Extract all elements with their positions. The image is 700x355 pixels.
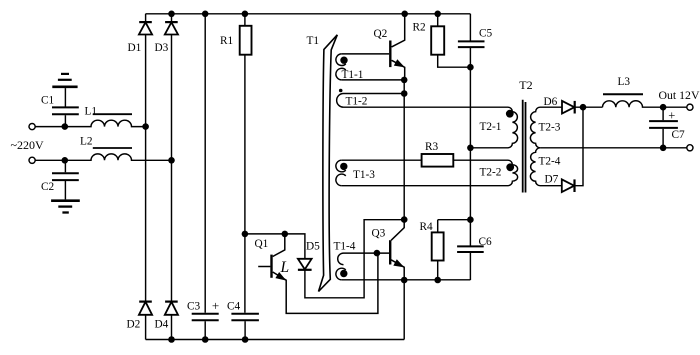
svg-text:Q1: Q1 bbox=[255, 238, 269, 250]
terminal output top bbox=[687, 104, 693, 110]
wire Q3 emitter node to bottom rail bbox=[403, 280, 405, 340]
terminal input top bbox=[29, 124, 35, 130]
junction Q3 base T1-4 bbox=[374, 250, 381, 257]
transistor Q3 bbox=[390, 220, 404, 280]
resistor R2 bbox=[431, 14, 470, 67]
capacitor C6 bbox=[457, 246, 484, 280]
junction L3 out C7 top bbox=[660, 104, 667, 111]
capacitor C2 bbox=[52, 160, 79, 199]
diode D5 bbox=[298, 220, 404, 298]
diode D1 bbox=[139, 14, 152, 302]
svg-text:L2: L2 bbox=[80, 136, 93, 148]
junction top rail R1 bbox=[242, 11, 249, 18]
svg-text:D5: D5 bbox=[306, 240, 320, 252]
wire C3 column bbox=[204, 14, 206, 340]
diode D2 bbox=[139, 302, 152, 340]
polarity dot T2-2 bbox=[506, 163, 514, 171]
junction bottom rail C4 bbox=[242, 336, 249, 343]
winding T2-1 with feed from T1-2 bbox=[344, 107, 518, 148]
svg-text:T2-1: T2-1 bbox=[480, 121, 502, 133]
junction Q3 emitter T1-4 bottom bbox=[401, 277, 408, 284]
polarity dot T1-4 bbox=[340, 270, 347, 277]
capacitor C5 bbox=[458, 14, 485, 246]
polarity dot T2-1 bbox=[506, 110, 514, 118]
svg-text:T1: T1 bbox=[307, 35, 320, 47]
junction L1 C1 bbox=[62, 123, 69, 130]
svg-text:+: + bbox=[212, 298, 219, 313]
transformer T2 core bbox=[523, 100, 526, 193]
diode D7 bbox=[562, 107, 583, 192]
svg-text:R3: R3 bbox=[425, 141, 439, 153]
wire Q2 emitter to Q3 column bbox=[403, 80, 405, 220]
junction Q2 emitter T1-1 bbox=[401, 77, 408, 84]
svg-text:C2: C2 bbox=[41, 181, 55, 193]
junction D6 cathode node bbox=[580, 104, 587, 111]
inductor L3 bbox=[603, 94, 687, 107]
polarity dot T1-1 bbox=[340, 57, 347, 64]
svg-text:C6: C6 bbox=[479, 236, 493, 248]
junction Q3 collector node bbox=[401, 216, 408, 223]
svg-text:Q2: Q2 bbox=[374, 28, 388, 40]
junction top rail R2 bbox=[434, 11, 441, 18]
junction R2 C5 bottom bbox=[467, 64, 474, 71]
svg-text:D3: D3 bbox=[155, 42, 169, 54]
capacitor C7 bbox=[649, 107, 678, 148]
svg-text:~220V: ~220V bbox=[11, 138, 44, 152]
junction top rail C3 bbox=[202, 11, 209, 18]
diode D6 bbox=[562, 101, 603, 114]
terminal input bottom bbox=[29, 157, 35, 163]
diode D3 bbox=[165, 14, 178, 302]
junction C7 bottom bbox=[660, 145, 667, 152]
junction bottom rail D4 bbox=[168, 336, 175, 343]
wire top rail bbox=[146, 13, 471, 15]
svg-text:T2: T2 bbox=[519, 78, 532, 92]
svg-text:L3: L3 bbox=[618, 76, 631, 88]
svg-text:T1-4: T1-4 bbox=[334, 240, 356, 252]
winding T1-3 bbox=[336, 160, 422, 186]
winding T1-1 bbox=[336, 54, 404, 80]
junction top rail D3 bbox=[168, 11, 175, 18]
junction T1-2 top bbox=[401, 90, 408, 97]
wire center tap to output bbox=[540, 147, 687, 149]
winding T1-2 bbox=[337, 94, 405, 108]
ground above C1 bbox=[52, 74, 77, 107]
junction T2-1 bottom C5 column bbox=[467, 145, 474, 152]
svg-text:T2-4: T2-4 bbox=[539, 156, 561, 168]
ground below C2 bbox=[51, 201, 80, 213]
svg-text:C1: C1 bbox=[41, 94, 54, 106]
junction L1 D1 column bbox=[142, 123, 149, 130]
svg-text:T1-2: T1-2 bbox=[346, 95, 368, 107]
junction L2 D3 column bbox=[168, 157, 175, 164]
winding T2-4 with wire to D7 bbox=[530, 148, 561, 186]
svg-text:T2-3: T2-3 bbox=[539, 121, 561, 133]
svg-text:D7: D7 bbox=[545, 174, 559, 186]
svg-text:L: L bbox=[280, 259, 290, 276]
junction R1 Q1 collector line bbox=[242, 231, 249, 238]
winding T2-3 with wire to D6 bbox=[530, 107, 562, 148]
capacitor C1 bbox=[52, 107, 79, 126]
transistor Q1 bbox=[258, 234, 378, 314]
junction L2 C2 bbox=[62, 157, 69, 164]
transformer T1 core bbox=[319, 35, 338, 292]
wire R3 to winding T2-2 top bbox=[453, 160, 512, 165]
inductor L1 bbox=[35, 114, 145, 126]
svg-text:T2-2: T2-2 bbox=[480, 166, 502, 178]
resistor R4 bbox=[432, 220, 471, 280]
wire R1 node to Q1 collector and D5 bbox=[245, 234, 305, 259]
svg-text:R1: R1 bbox=[220, 35, 233, 47]
svg-text:D4: D4 bbox=[155, 319, 169, 331]
polarity dot T1-3 bbox=[340, 163, 347, 170]
capacitor C4 bbox=[231, 314, 259, 340]
junction R4 bottom bbox=[434, 277, 441, 284]
svg-text:C7: C7 bbox=[672, 129, 686, 141]
terminal output bottom bbox=[687, 145, 693, 151]
wire bottom rail bbox=[146, 339, 405, 341]
resistor R3 bbox=[422, 154, 454, 167]
svg-text:C3: C3 bbox=[187, 300, 201, 312]
svg-text:R4: R4 bbox=[420, 221, 434, 233]
transistor Q2 bbox=[390, 14, 404, 80]
polarity dot T1-2 bbox=[339, 89, 343, 93]
svg-text:Q3: Q3 bbox=[372, 228, 386, 240]
junction R4 top C5 column bbox=[467, 216, 474, 223]
inductor L2 bbox=[35, 148, 171, 160]
winding T1-4 bbox=[336, 253, 471, 280]
svg-text:C4: C4 bbox=[227, 300, 241, 312]
svg-text:D2: D2 bbox=[127, 319, 141, 331]
svg-text:Out 12V: Out 12V bbox=[659, 88, 700, 102]
svg-text:L1: L1 bbox=[85, 106, 98, 118]
svg-text:+: + bbox=[668, 109, 675, 123]
svg-text:T1-1: T1-1 bbox=[342, 69, 364, 81]
svg-text:R2: R2 bbox=[413, 22, 427, 34]
svg-text:C5: C5 bbox=[479, 27, 493, 39]
diode D4 bbox=[165, 302, 178, 340]
resistor R1 bbox=[240, 14, 252, 313]
capacitor C3 bbox=[192, 314, 219, 321]
junction bottom rail C3 bbox=[202, 336, 209, 343]
winding T2-2 bbox=[342, 165, 518, 186]
svg-text:D6: D6 bbox=[544, 96, 558, 108]
junction top rail Q2 collector bbox=[401, 11, 408, 18]
svg-text:T1-3: T1-3 bbox=[353, 169, 375, 181]
junction Q1 collector bbox=[282, 231, 289, 238]
svg-text:D1: D1 bbox=[128, 42, 142, 54]
